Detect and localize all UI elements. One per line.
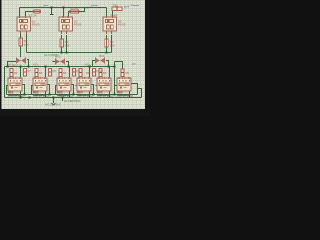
- label D7: [28, 69, 32, 73]
- wire: FU1 through lead: [33, 11, 41, 13]
- net label blue L1: [39, 6, 49, 10]
- wire: RL1 bottom pin drop: [20, 91, 22, 98]
- svg-text:D4: D4: [86, 71, 90, 75]
- svg-text:R7: R7: [133, 62, 137, 66]
- wire: RL3 bottom pin drop: [69, 91, 71, 98]
- diode D3: [59, 69, 62, 77]
- junction at (29.5,97.5): [29, 97, 31, 99]
- wire: FU2 through lead: [69, 8, 85, 12]
- svg-text:D9: D9: [77, 69, 81, 73]
- label R2: [65, 40, 70, 48]
- label D10: [97, 69, 102, 73]
- wire: U1 lower-right to rail2: [26, 34, 28, 53]
- svg-text:AC-L: AC-L: [85, 63, 91, 67]
- wire: mid rail2: [27, 52, 112, 54]
- junction at (28.5,66.5): [28, 66, 30, 68]
- junction at (7.5,66.5): [7, 66, 9, 68]
- label RL3: [57, 91, 73, 98]
- svg-text:OMI-SH-205D: OMI-SH-205D: [77, 94, 93, 97]
- net label blue L2: [84, 6, 98, 10]
- junction at (63.5,7.5): [63, 7, 65, 9]
- border bottom: [0, 109, 150, 116]
- wire: U1 left pin up: [19, 8, 21, 18]
- label U2: [74, 20, 82, 27]
- diode D5: [99, 69, 102, 77]
- wire: rail5 bottom: [5, 97, 142, 99]
- label D5: [103, 71, 107, 75]
- wire: U3 lower-left to R3: [106, 35, 108, 39]
- svg-text:OMI-SH-205D: OMI-SH-205D: [33, 94, 49, 97]
- diode D1: [10, 69, 13, 77]
- junction at (45.5,66.5): [45, 66, 47, 68]
- junction at (93.5,94.5): [93, 94, 95, 96]
- wire: rail4 neutral return: [7, 94, 138, 96]
- border right: [145, 0, 150, 116]
- svg-text:MV3: MV3: [99, 54, 105, 58]
- svg-text:D6: D6: [126, 71, 130, 75]
- junction at (114.5,66.5): [114, 66, 116, 68]
- junction at (53.5,97.5): [53, 97, 55, 99]
- junction at (24.5,94.5): [24, 94, 26, 96]
- wire: TB1 to U3 right pin: [112, 11, 114, 18]
- wire: RL4 bottom pin drop: [89, 91, 91, 98]
- terminal T1 bar: [50, 14, 54, 16]
- varistor X3: [95, 58, 105, 64]
- fuse FU1: [33, 10, 42, 13]
- wire: D6 to RL6 pin: [122, 77, 124, 79]
- label RL4: [77, 91, 93, 98]
- wire: RL6 right pin loop: [131, 84, 138, 95]
- diode D8: [49, 69, 52, 77]
- svg-text:D5: D5: [103, 71, 107, 75]
- label FU1: [29, 14, 37, 18]
- wire: R1 to varistor X1: [20, 46, 22, 57]
- junction at (106.5,52.5): [106, 52, 108, 54]
- label D1: [14, 71, 18, 75]
- wire: terminal drop T3: [62, 98, 64, 102]
- label X1: [13, 64, 19, 68]
- diode D9: [73, 69, 76, 77]
- wire: RL1 right stub drop: [22, 85, 25, 95]
- relay RL2: [33, 77, 47, 91]
- label U1: [32, 20, 40, 27]
- wire: RL5 feed from rail3: [109, 67, 111, 78]
- svg-text:tblock: tblock: [111, 13, 118, 17]
- wire: U2 left pin up: [63, 8, 65, 18]
- wire: RL2 right stub drop: [47, 85, 50, 95]
- junction at (49.5,94.5): [49, 94, 51, 96]
- label X3: [99, 54, 105, 58]
- svg-text:10k: 10k: [24, 43, 29, 47]
- wire: left bus down: [4, 67, 6, 98]
- wire: RL3 left stub: [56, 86, 58, 95]
- wire: rail3 AC-L: [5, 66, 115, 68]
- diode D2: [35, 69, 38, 77]
- junction at (20.5,66.5): [20, 66, 22, 68]
- svg-text:D2: D2: [39, 71, 43, 75]
- wire: R3 to rail2: [106, 47, 108, 53]
- label U3: [118, 20, 126, 27]
- diode D10: [93, 69, 96, 77]
- resistor R7 right: [133, 62, 137, 66]
- relay RL3: [57, 77, 71, 91]
- net label bottom 220VAC: [45, 103, 62, 107]
- svg-text:TB1: TB1: [113, 4, 118, 8]
- junction at (66.5,52.5): [66, 52, 68, 54]
- wire: RL5 left stub: [96, 85, 98, 87]
- junction at (51.5,7.5): [51, 7, 53, 9]
- wire: R2 to rail2: [61, 47, 63, 53]
- wire: U3 lower-right to rail2 end: [111, 35, 113, 53]
- svg-text:10k: 10k: [65, 44, 70, 48]
- svg-text:OMI-SH-205D: OMI-SH-205D: [117, 94, 133, 97]
- wire: U1 right pin to fuse FU1: [26, 12, 34, 18]
- wire: RL6 feed top: [115, 62, 123, 69]
- terminal block TB1: [112, 7, 122, 11]
- wire: RL1 feed from rail3: [20, 67, 22, 78]
- label D2: [39, 71, 43, 75]
- junction at (108.5,66.5): [108, 66, 110, 68]
- wire: X2 right lead to rail3: [66, 62, 69, 67]
- label RL2: [33, 91, 49, 98]
- svg-text:PS-05: PS-05: [118, 23, 126, 27]
- relay RL4: [77, 77, 91, 91]
- wire: RL2 left stub: [32, 86, 34, 95]
- relay RL5: [97, 77, 111, 91]
- junction at (89.5,66.5): [89, 66, 91, 68]
- wire: U2 right pin to fuse FU2: [69, 12, 71, 18]
- wire: X3 right lead to rail3: [106, 61, 109, 67]
- svg-text:OMI-SH-205D: OMI-SH-205D: [8, 94, 24, 97]
- svg-text:AC-NEUTRAL: AC-NEUTRAL: [64, 99, 81, 103]
- label D6: [126, 71, 130, 75]
- label RL1: [8, 91, 24, 98]
- border left: [0, 0, 2, 116]
- wire: RL2 bottom pin drop: [45, 91, 47, 98]
- label R3: [110, 40, 115, 48]
- net label rail2 green: [44, 53, 59, 57]
- resistor R3: [105, 39, 109, 47]
- svg-text:F2 2A: F2 2A: [71, 6, 79, 10]
- wire: rail5 right end up: [138, 89, 142, 98]
- junction at (68.5,66.5): [68, 66, 70, 68]
- svg-text:D3: D3: [63, 71, 67, 75]
- svg-text:D10: D10: [97, 69, 102, 73]
- svg-text:AC-L: AC-L: [33, 63, 39, 67]
- wire: U1 lower-left to R1: [20, 34, 22, 38]
- schematic sheet background: [0, 0, 150, 116]
- svg-text:D1: D1: [14, 71, 18, 75]
- junction at (62.5,97.5): [62, 97, 64, 99]
- wire: X3 left lead to rail3: [93, 61, 96, 67]
- wire: RL3 feed from rail3: [69, 67, 71, 78]
- diode D6: [121, 69, 124, 77]
- relay RL1: [8, 77, 22, 91]
- svg-text:ac-L: ac-L: [84, 7, 89, 10]
- svg-text:OMI-SH-205D: OMI-SH-205D: [97, 94, 113, 97]
- svg-text:AC-L: AC-L: [8, 63, 14, 67]
- svg-text:PS-05: PS-05: [74, 23, 82, 27]
- label RL5: [97, 91, 113, 98]
- wire: X1 right lead to rail3: [27, 60, 29, 67]
- svg-text:AC 220VAC: AC 220VAC: [45, 103, 62, 107]
- wire: RL1 left stub: [7, 86, 9, 95]
- junction at (61.5,52.5): [61, 52, 63, 54]
- terminal T2 bar: [52, 103, 56, 105]
- wire: RL4 left stub: [76, 85, 78, 87]
- wire: U2 lower-left to R2: [61, 35, 63, 39]
- junction at (73.5,94.5): [73, 94, 75, 96]
- wire: RL6 left stub: [115, 85, 118, 87]
- svg-text:AC-N-PROT: AC-N-PROT: [44, 53, 59, 57]
- wire: X1 left lead to rail3: [8, 62, 17, 67]
- junction at (114.5,94.5): [114, 94, 116, 96]
- varistor X2: [55, 59, 65, 65]
- net label rail3 red mid: [33, 63, 39, 67]
- net label bottom neutral: [64, 99, 81, 103]
- wire: top rail L1: [20, 7, 107, 9]
- svg-text:PS-05: PS-05: [32, 23, 40, 27]
- wire: RL5 bottom pin drop: [109, 91, 111, 98]
- wire: RL4 right stub drop: [91, 85, 94, 95]
- label D4: [86, 71, 90, 75]
- resistor R1: [19, 38, 23, 46]
- fuse FU2: [69, 10, 80, 13]
- net label blue L3: [124, 5, 139, 9]
- junction at (20.5,97.5): [20, 97, 22, 99]
- net label rail3 red left: [8, 63, 14, 67]
- wire: RL6 bottom pin drop: [129, 91, 131, 98]
- wire: RL2 feed from rail3: [45, 67, 47, 78]
- svg-text:OMI-SH-205D: OMI-SH-205D: [57, 94, 73, 97]
- wire: U2 lower-right to rail2: [66, 35, 68, 53]
- label TB1: [111, 4, 119, 18]
- label RL6: [117, 91, 133, 98]
- wire: terminal drop at x51: [51, 8, 53, 15]
- wire: RL3 right stub drop: [71, 85, 74, 95]
- module U2: [59, 16, 73, 34]
- label X2: [55, 55, 61, 59]
- net label rail3 red right: [85, 63, 91, 67]
- label D3: [63, 71, 67, 75]
- wire: X2 left lead: [53, 61, 56, 63]
- wire: RL4 feed from rail3: [89, 67, 91, 78]
- label D8: [53, 69, 57, 73]
- resistor R2: [60, 39, 64, 47]
- label FU2: [71, 6, 79, 10]
- module U3: [103, 16, 117, 34]
- label D9: [77, 69, 81, 73]
- varistor X1: [16, 58, 26, 64]
- svg-text:D7: D7: [28, 69, 32, 73]
- wire: U3 left pin down: [106, 8, 108, 18]
- svg-text:F1 2A: F1 2A: [29, 14, 37, 18]
- wire: right bus for RL6: [114, 62, 116, 95]
- diode D7: [24, 69, 27, 77]
- svg-text:ac-N: ac-N: [124, 6, 129, 9]
- relay RL6: [117, 77, 131, 91]
- module U1: [17, 16, 31, 34]
- wire: terminal drop T2: [53, 98, 55, 104]
- diode D4: [79, 69, 82, 77]
- svg-text:10k: 10k: [110, 44, 115, 48]
- label R1: [24, 39, 29, 47]
- svg-text:D8: D8: [53, 69, 57, 73]
